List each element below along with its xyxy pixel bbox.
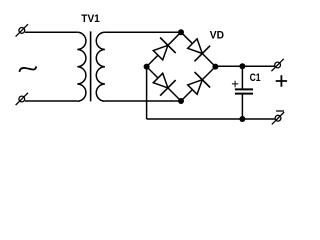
label output minus overbar — [276, 110, 284, 112]
wire primary top lead — [25, 31, 77, 33]
capacitor C1 bottom lead — [241, 95, 243, 119]
wire bridge edge L-B — [147, 67, 181, 101]
terminal input top circle — [19, 28, 25, 34]
diode VD2 (T-R) triangle — [188, 39, 203, 54]
diode VD4 (B-R) cathode bar — [195, 72, 211, 88]
node bridge corner L — [144, 64, 150, 70]
node bridge corner R — [212, 64, 218, 70]
wire primary bottom lead — [25, 100, 77, 102]
transformer TV1 primary winding — [77, 32, 86, 101]
wire secondary bottom lead — [105, 100, 181, 102]
terminal output minus circle — [275, 115, 281, 121]
terminal output plus circle — [275, 62, 281, 68]
terminal output plus slash — [271, 59, 283, 71]
wire bridge edge B-R — [181, 67, 215, 101]
node capacitor top junction — [239, 63, 245, 69]
wire L corner to bottom rail — [146, 67, 148, 119]
node bridge corner T — [178, 29, 184, 35]
diode VD4 (B-R) triangle — [188, 80, 203, 95]
transformer TV1 core — [90, 31, 92, 101]
capacitor C1 polarity plus — [232, 81, 238, 88]
terminal input bottom circle — [19, 96, 25, 102]
diode VD3 (L-B) cathode bar — [160, 80, 176, 96]
wire secondary top lead — [105, 31, 181, 33]
svg-text:VD: VD — [210, 30, 224, 42]
capacitor C1 top plate — [235, 88, 253, 90]
wire bridge edge T-L — [147, 32, 181, 66]
capacitor C1 bottom plate — [235, 93, 253, 95]
wire bridge edge T-R — [181, 32, 215, 66]
terminal input top slash — [16, 24, 28, 36]
node bridge corner B — [178, 98, 184, 104]
svg-text:TV1: TV1 — [81, 13, 100, 25]
svg-text:C1: C1 — [250, 72, 261, 84]
diode VD3 (L-B) triangle — [153, 73, 168, 88]
node capacitor bottom junction — [239, 116, 245, 122]
terminal input bottom slash — [16, 93, 28, 105]
transformer TV1 secondary winding — [96, 32, 105, 101]
wire R corner to plus terminal — [215, 65, 274, 67]
capacitor C1 top lead — [241, 66, 243, 88]
diode VD1 (L-T) cathode bar — [160, 38, 176, 54]
AC sign ~ — [19, 66, 36, 72]
wire bottom rail — [147, 118, 275, 120]
label output plus sign — [276, 75, 287, 87]
diode VD1 (L-T) triangle — [153, 45, 168, 60]
diode VD2 (T-R) cathode bar — [195, 46, 211, 62]
terminal output minus slash — [272, 112, 284, 124]
